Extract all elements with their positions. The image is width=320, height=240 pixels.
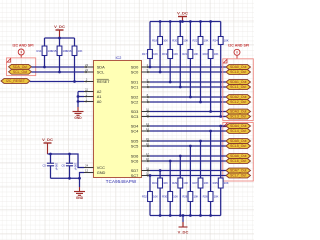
- wire SD0: [150, 66, 226, 68]
- directive I2C AND SPI (left): [12, 43, 33, 58]
- svg-text:C6: C6: [61, 163, 65, 167]
- port SCL0_Out: [226, 70, 251, 75]
- port SCL6_Out: [226, 159, 251, 164]
- resistor R17: [142, 22, 158, 68]
- port SDA_Out: [9, 64, 32, 69]
- port SDA1_Out: [226, 80, 251, 85]
- svg-text:SCL1_Out: SCL1_Out: [230, 85, 246, 89]
- wire SD3: [150, 111, 226, 113]
- svg-text:SC2: SC2: [131, 99, 139, 104]
- svg-text:R29: R29: [172, 181, 177, 185]
- svg-text:R32: R32: [142, 195, 147, 199]
- pin 14 SC4: [131, 127, 150, 133]
- svg-text:R17: R17: [142, 52, 147, 56]
- wire V_DC rail bottom: [150, 215, 221, 217]
- svg-text:100nF: 100nF: [74, 163, 78, 171]
- svg-text:R25: R25: [213, 181, 218, 185]
- pin 9 SC2: [131, 98, 150, 104]
- pin 10 SD3: [131, 108, 150, 114]
- svg-text:I2C AND SPI: I2C AND SPI: [12, 43, 33, 47]
- pin 4 SD0: [131, 63, 150, 69]
- junction C6 bottom: [68, 177, 71, 180]
- resistor R23: [203, 22, 219, 112]
- junction rail top: [179, 20, 182, 23]
- pin 24 VCC: [84, 164, 105, 170]
- wire SC7: [150, 175, 226, 177]
- svg-text:SC4: SC4: [131, 128, 139, 133]
- port SDA5_Out: [226, 139, 251, 144]
- port I2C_RESET: [1, 79, 30, 84]
- junction SD6 pull-up: [179, 155, 182, 158]
- junction R15/SCL: [58, 71, 61, 74]
- wire SC5: [150, 145, 226, 147]
- svg-text:SDA3_Out: SDA3_Out: [230, 110, 247, 114]
- svg-text:C5: C5: [42, 163, 46, 167]
- svg-text:SCL5_Out: SCL5_Out: [230, 144, 246, 148]
- junction C5 top: [49, 153, 52, 156]
- svg-text:R21: R21: [182, 52, 187, 56]
- pin 18 SC6: [131, 157, 150, 163]
- resistor R27: [192, 141, 208, 216]
- junction A0: [77, 100, 80, 103]
- junction rail top: [189, 20, 192, 23]
- svg-text:R16: R16: [66, 49, 71, 53]
- resistor R30: [162, 161, 178, 216]
- port SCL2_Out: [226, 100, 251, 105]
- port SDA6_Out: [226, 154, 251, 159]
- svg-text:SDA7_Out: SDA7_Out: [230, 169, 247, 173]
- svg-text:V_DC: V_DC: [42, 137, 53, 142]
- wire SDA: [32, 66, 85, 68]
- junction R14/SDA: [43, 66, 46, 69]
- pin 23 SDA: [84, 63, 105, 69]
- svg-text:SDA5_Out: SDA5_Out: [230, 139, 247, 143]
- svg-text:V_DC: V_DC: [177, 10, 188, 15]
- pin 6 SD1: [131, 78, 150, 84]
- junction C6 top: [68, 153, 71, 156]
- port SCL3_Out: [226, 114, 251, 119]
- svg-text:R18: R18: [152, 39, 157, 43]
- port SCL7_Out: [226, 173, 251, 178]
- junction SC0 pull-up: [159, 71, 162, 74]
- svg-text:RESET: RESET: [97, 79, 111, 84]
- blanket box (right top): [223, 59, 254, 121]
- pin 11 SC3: [131, 113, 150, 119]
- wire SC4: [150, 130, 226, 132]
- wire cap top rail: [48, 154, 85, 168]
- junction V_DC stub: [181, 20, 184, 23]
- wire A2-A0 vertical: [77, 92, 79, 108]
- svg-text:SCL4_Out: SCL4_Out: [230, 129, 246, 133]
- svg-text:R27: R27: [192, 181, 197, 185]
- svg-text:10K: 10K: [173, 195, 178, 199]
- blanket box (left): [7, 58, 36, 76]
- junction SD1 pull-up: [169, 81, 172, 84]
- pin 5 SC0: [131, 68, 150, 74]
- port SDA7_Out: [226, 168, 251, 173]
- junction A1: [77, 95, 80, 98]
- svg-text:GND: GND: [76, 196, 84, 200]
- resistor R20: [172, 22, 188, 88]
- wire GND drop: [79, 178, 81, 187]
- svg-text:10K: 10K: [153, 195, 158, 199]
- svg-text:SDA0_Out: SDA0_Out: [230, 65, 247, 69]
- svg-text:10K: 10K: [204, 39, 209, 43]
- wire A1 stub: [78, 96, 84, 98]
- svg-text:10K: 10K: [153, 52, 158, 56]
- wire A2 stub: [78, 91, 84, 93]
- pin 12 GND: [84, 169, 106, 175]
- svg-text:R20: R20: [172, 39, 177, 43]
- pin 20 SC7: [131, 172, 150, 178]
- pin 7 SC1: [131, 83, 150, 89]
- port SCL5_Out: [226, 144, 251, 149]
- resistor R28: [182, 146, 198, 216]
- svg-text:R14: R14: [36, 49, 41, 53]
- svg-text:10K: 10K: [163, 39, 168, 43]
- svg-text:SCL2_Out: SCL2_Out: [230, 100, 246, 104]
- junction SD5 pull-up: [199, 140, 202, 143]
- junction rail bottom: [169, 214, 172, 217]
- svg-text:10K: 10K: [224, 39, 229, 43]
- svg-text:R28: R28: [182, 195, 187, 199]
- svg-text:SDA1_Out: SDA1_Out: [230, 80, 247, 84]
- capacitor C6 100nF: [61, 154, 77, 178]
- junction SC1 pull-up: [179, 86, 182, 89]
- svg-text:10K: 10K: [204, 181, 209, 185]
- wire V_DC rail top-right: [150, 21, 221, 23]
- power V_DC (decoupling): [42, 137, 53, 154]
- svg-text:SC1: SC1: [131, 84, 139, 89]
- svg-text:GND: GND: [74, 116, 82, 120]
- junction SC3 pull-up: [219, 115, 222, 118]
- pin 17 SD6: [131, 152, 150, 158]
- svg-text:10K: 10K: [214, 52, 219, 56]
- svg-text:10K: 10K: [224, 181, 229, 185]
- junction rail top: [209, 20, 212, 23]
- svg-text:SDA6_Out: SDA6_Out: [230, 154, 247, 158]
- svg-text:SC0: SC0: [131, 69, 139, 74]
- resistor R26: [203, 131, 219, 216]
- ground GND (address pins): [73, 107, 84, 120]
- resistor R14: [36, 38, 52, 67]
- power V_DC (top-left): [54, 24, 65, 38]
- junction V_DC stub bottom: [182, 214, 185, 217]
- wire SC2: [150, 101, 226, 103]
- resistor R31: [152, 171, 168, 216]
- svg-text:10K: 10K: [78, 49, 83, 53]
- svg-text:SCL3_Out: SCL3_Out: [230, 115, 246, 119]
- junction R16/I2C_RESET: [73, 80, 76, 83]
- svg-text:IC2: IC2: [116, 56, 122, 60]
- junction SD0 pull-up: [149, 66, 152, 69]
- resistor R32: [142, 176, 158, 216]
- pin 1 A0: [84, 98, 102, 104]
- junction SD3 pull-up: [209, 110, 212, 113]
- resistor R21: [182, 22, 198, 98]
- junction rail top: [169, 20, 172, 23]
- blanket box (right bottom): [223, 123, 254, 182]
- svg-text:TCA9548APW: TCA9548APW: [106, 179, 137, 184]
- svg-text:SC3: SC3: [131, 114, 139, 119]
- svg-text:R24: R24: [213, 39, 218, 43]
- junction SC4 pull-up: [209, 130, 212, 133]
- wire A0 stub: [78, 101, 84, 103]
- directive I2C AND SPI (right): [228, 43, 249, 58]
- wire SC0: [150, 71, 226, 73]
- svg-text:R31: R31: [152, 181, 157, 185]
- svg-text:SCL7_Out: SCL7_Out: [230, 174, 246, 178]
- wire SC1: [150, 86, 226, 88]
- junction SD7 pull-up: [159, 169, 162, 172]
- svg-text:SCL_Out: SCL_Out: [13, 70, 27, 74]
- resistor R18: [152, 22, 168, 73]
- svg-text:10K: 10K: [183, 39, 188, 43]
- wire SD6: [150, 155, 226, 157]
- wire V_DC rail top-left: [45, 37, 75, 39]
- pin 21 A2: [84, 88, 101, 94]
- junction SC6 pull-up: [169, 160, 172, 163]
- pin 19 SD7: [131, 167, 150, 173]
- svg-text:SC5: SC5: [131, 143, 139, 148]
- junction rail top: [199, 20, 202, 23]
- junction SC7 pull-up: [149, 174, 152, 177]
- resistor R22: [192, 22, 208, 103]
- svg-text:10K: 10K: [173, 52, 178, 56]
- pin 2 A1: [84, 93, 101, 99]
- svg-text:GND: GND: [97, 170, 106, 175]
- svg-text:R30: R30: [162, 195, 167, 199]
- pin 8 SD2: [131, 93, 150, 99]
- svg-text:100nF: 100nF: [55, 163, 59, 171]
- junction V_DC/rail: [58, 37, 61, 40]
- svg-text:R15: R15: [51, 49, 56, 53]
- junction GND drop: [78, 177, 81, 180]
- wire SC6: [150, 160, 226, 162]
- svg-text:10K: 10K: [194, 195, 199, 199]
- svg-text:10K: 10K: [163, 181, 168, 185]
- wire I2C_RESET: [30, 81, 84, 83]
- svg-text:SDA4_Out: SDA4_Out: [230, 124, 247, 128]
- svg-text:R23: R23: [203, 52, 208, 56]
- junction rail bottom: [179, 214, 182, 217]
- capacitor C5 100nF: [42, 154, 58, 178]
- pin 13 SD4: [131, 122, 150, 128]
- svg-text:V_DC: V_DC: [54, 24, 65, 29]
- resistor R24: [213, 22, 229, 117]
- resistor R16: [66, 38, 82, 82]
- svg-text:SCL0_Out: SCL0_Out: [230, 70, 246, 74]
- port SCL4_Out: [226, 129, 251, 134]
- power V_DC (bottom, inverted): [178, 216, 189, 235]
- svg-text:10K: 10K: [183, 181, 188, 185]
- pin 16 SC5: [131, 142, 150, 148]
- svg-text:SCL: SCL: [97, 69, 105, 74]
- resistor R15: [51, 38, 67, 72]
- wire SD2: [150, 96, 226, 98]
- junction rail top: [159, 20, 162, 23]
- wire SD5: [150, 140, 226, 142]
- port SCL1_Out: [226, 85, 251, 90]
- svg-text:SDA2_Out: SDA2_Out: [230, 95, 247, 99]
- port SCL_Out: [9, 69, 32, 74]
- wire SD7: [150, 170, 226, 172]
- junction SC2 pull-up: [199, 101, 202, 104]
- svg-text:SC7: SC7: [131, 173, 139, 178]
- junction SC5 pull-up: [189, 145, 192, 148]
- svg-text:SC6: SC6: [131, 158, 139, 163]
- port SDA4_Out: [226, 124, 251, 129]
- svg-text:I2C_RESET: I2C_RESET: [6, 79, 25, 83]
- junction rail bottom: [189, 214, 192, 217]
- wire SD4: [150, 125, 226, 127]
- svg-text:10K: 10K: [214, 195, 219, 199]
- junction rail bottom: [159, 214, 162, 217]
- multiplexer IC2 TCA9548APW: [94, 56, 142, 184]
- junction rail bottom: [199, 214, 202, 217]
- power V_DC (top-right): [177, 10, 188, 21]
- wire cap bottom rail: [51, 173, 85, 179]
- junction SD2 pull-up: [189, 96, 192, 99]
- wire SCL: [32, 71, 85, 73]
- svg-text:SDA_Out: SDA_Out: [13, 65, 28, 69]
- svg-text:10K: 10K: [194, 52, 199, 56]
- svg-text:A0: A0: [97, 99, 103, 104]
- svg-text:V_DC: V_DC: [178, 230, 189, 235]
- wire SD1: [150, 81, 226, 83]
- wire SC3: [150, 116, 226, 118]
- svg-text:I2C AND SPI: I2C AND SPI: [228, 43, 249, 47]
- svg-text:R19: R19: [162, 52, 167, 56]
- port SDA2_Out: [226, 95, 251, 100]
- junction rail bottom: [209, 214, 212, 217]
- ground GND (decoupling): [74, 187, 85, 200]
- svg-text:R22: R22: [192, 39, 197, 43]
- svg-text:R26: R26: [203, 195, 208, 199]
- pin 15 SD5: [131, 137, 150, 143]
- port SDA3_Out: [226, 109, 251, 114]
- pin 22 SCL: [84, 68, 105, 74]
- junction SD4 pull-up: [219, 125, 222, 128]
- resistor R29: [172, 156, 188, 216]
- resistor R25: [213, 126, 229, 216]
- port SDA0_Out: [226, 65, 251, 70]
- svg-text:SCL6_Out: SCL6_Out: [230, 159, 246, 163]
- resistor R19: [162, 22, 178, 83]
- pin 3 RESET: [84, 78, 110, 84]
